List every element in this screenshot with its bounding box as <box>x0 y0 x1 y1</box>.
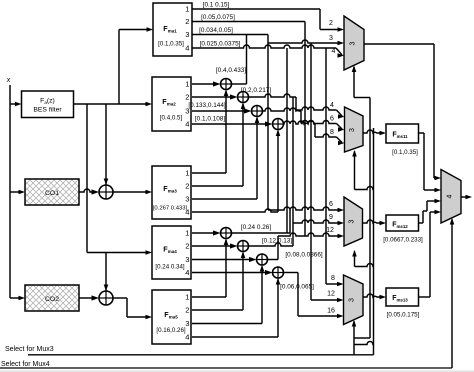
svg-text:4: 4 <box>185 208 189 217</box>
wire x to CO1 <box>10 190 25 195</box>
svg-text:[0.05,0.175]: [0.05,0.175] <box>387 312 420 319</box>
svg-text:3: 3 <box>329 35 333 42</box>
wire Fma1 pin1 <box>192 8 320 10</box>
svg-text:2: 2 <box>185 306 189 315</box>
block CO1 <box>25 179 79 205</box>
label band 0.08-0.0866 <box>285 252 323 259</box>
wire Fma1 pin2 <box>192 21 305 23</box>
wire mux4b in 16 <box>298 314 344 319</box>
wire Fma4 pin4 <box>192 270 273 275</box>
block Fa BES filter <box>22 91 74 118</box>
wire Fa output <box>74 102 153 107</box>
svg-text:8: 8 <box>331 275 335 282</box>
svg-text:[0.05,0.075]: [0.05,0.075] <box>201 14 235 21</box>
wire Fma2 pin4 <box>192 121 273 126</box>
decor bottom band <box>0 370 474 372</box>
wire select4 line <box>0 367 452 369</box>
svg-text:1: 1 <box>185 5 189 14</box>
wire A2 out <box>249 94 297 110</box>
wire sel branch mux1 <box>352 66 370 98</box>
wire Fma2 pin1 <box>192 81 221 86</box>
wire A3 out <box>263 108 302 124</box>
label select mux4 <box>1 361 50 368</box>
adder A3 <box>252 106 263 117</box>
block Fma1 <box>153 3 192 56</box>
svg-text:[0.034,0.05]: [0.034,0.05] <box>199 27 233 34</box>
label band 0.12-0.13 <box>262 238 292 245</box>
label mux1 2 <box>329 20 333 27</box>
label band 0.034-0.05 <box>199 27 233 34</box>
adder B3 <box>257 254 268 265</box>
wire Fma1 pin3 <box>192 34 268 36</box>
wire sel stub1 mux4b <box>354 337 370 339</box>
svg-text:CO1: CO1 <box>45 190 59 197</box>
wire mux4b out <box>363 294 386 299</box>
svg-text:[0.24 0.34]: [0.24 0.34] <box>155 264 185 271</box>
wire mux3 in 9 <box>293 220 344 225</box>
svg-text:8: 8 <box>330 129 334 136</box>
wire Fms13 out riser <box>419 212 431 297</box>
wire mux4b in 12 <box>311 298 344 303</box>
svg-text:12: 12 <box>327 291 335 298</box>
svg-text:[0.1 0.15]: [0.1 0.15] <box>203 2 230 9</box>
svg-text:[0.4,0.5]: [0.4,0.5] <box>160 115 183 122</box>
adder S1 after CO1 <box>99 185 113 199</box>
adder B2 <box>238 241 249 252</box>
mux M5 final <box>441 170 461 224</box>
svg-text:2: 2 <box>185 182 189 191</box>
wire S1 to Fma3 <box>113 190 152 195</box>
label band 0.24-0.26 <box>241 224 271 231</box>
wire mux1 out descent <box>433 44 435 178</box>
wire A2 branch x293 <box>292 97 294 246</box>
wire pin4 branch x326 <box>325 48 327 284</box>
wire mux5 in1 <box>434 176 441 181</box>
svg-text:4: 4 <box>332 48 336 55</box>
svg-text:[0.0667,0.233]: [0.0667,0.233] <box>383 237 423 244</box>
wire mux3 out <box>363 220 387 225</box>
wire tap to Fma1 <box>119 27 153 104</box>
adder A1 <box>221 79 232 90</box>
wire B4 out down <box>284 273 299 317</box>
svg-text:2: 2 <box>329 20 333 27</box>
wire Fma5 pin2 riser <box>192 252 245 311</box>
svg-text:16: 16 <box>327 308 335 315</box>
input x label <box>6 77 11 84</box>
wire sel branch mux3 <box>352 250 373 267</box>
wire Fma3 pin4 riser <box>192 130 280 213</box>
svg-text:[0.16,0.26]: [0.16,0.26] <box>156 327 186 334</box>
wire select4 riser <box>450 218 455 368</box>
mux M4b <box>344 275 364 325</box>
adder S2 after CO2 <box>99 291 113 305</box>
wire mux1 in3 <box>268 40 344 45</box>
svg-text:[0.267 0.433]: [0.267 0.433] <box>153 206 188 212</box>
svg-text:2: 2 <box>185 242 189 251</box>
label band 0.06-0.065 <box>280 284 314 291</box>
label band 0.025-0.0375 <box>200 41 241 48</box>
svg-text:3: 3 <box>350 41 357 45</box>
wire x to Fa <box>10 102 22 107</box>
defs hatch <box>0 0 1 1</box>
wire CO1 to adder <box>79 189 99 195</box>
label mux4b 12 <box>327 291 335 298</box>
adder A2 <box>238 92 249 103</box>
wire S2 to Fma5 <box>113 298 152 319</box>
wire mux5 in4 <box>430 210 441 215</box>
wire mux3 in 12 <box>278 233 344 238</box>
mux M3 <box>344 197 363 246</box>
block CO2 <box>25 285 79 311</box>
svg-text:3: 3 <box>349 128 356 132</box>
wire Fma3 pin3 riser <box>192 117 259 200</box>
svg-text:CO2: CO2 <box>45 296 59 303</box>
label band 0.1-0.15 <box>203 2 230 9</box>
wire mux2 in 6 <box>301 121 345 132</box>
wire mux5 in2 <box>424 188 441 193</box>
wire select3 riser B <box>373 128 375 355</box>
svg-text:3: 3 <box>185 255 189 264</box>
svg-text:4: 4 <box>447 194 454 198</box>
wire Fma5 pin1 riser <box>192 239 228 298</box>
adder B4 <box>273 267 284 278</box>
wire Fma1 pin4 <box>192 45 344 58</box>
label band 0.1-0.108 <box>195 116 225 123</box>
wire Fma4 input <box>87 250 152 255</box>
wire Fma4 pin2 <box>192 243 238 248</box>
svg-text:6: 6 <box>330 116 334 123</box>
svg-text:2: 2 <box>185 93 189 102</box>
wire Fma2 pin3 <box>192 108 252 113</box>
svg-text:1: 1 <box>185 229 189 238</box>
wire x vertical <box>9 85 11 298</box>
svg-text:Select for Mux4: Select for Mux4 <box>1 361 50 368</box>
wire A4 out <box>284 121 316 137</box>
svg-text:1: 1 <box>185 80 189 89</box>
svg-text:4: 4 <box>330 102 334 109</box>
label mux2 4 <box>330 102 334 109</box>
svg-text:3: 3 <box>185 30 189 39</box>
wire x elbow to CO2 <box>10 296 25 301</box>
wire mux3 in 6 <box>268 207 344 212</box>
label mux4b 16 <box>327 308 335 315</box>
wire Fms11 out <box>419 133 425 190</box>
block Fma4 <box>152 226 191 279</box>
svg-text:9: 9 <box>329 214 333 221</box>
svg-text:4: 4 <box>185 268 189 277</box>
svg-text:[0.133,0.144]: [0.133,0.144] <box>188 102 226 109</box>
wire Fma4 pin1 <box>192 230 221 235</box>
mux M1 top <box>344 16 364 70</box>
wire Fma4 pin3 <box>192 257 257 262</box>
label mux1 4 <box>332 48 336 55</box>
wire sel stub2 mux4b <box>354 342 374 345</box>
block Fms13 <box>386 288 420 319</box>
label mux3 12 <box>326 227 334 234</box>
svg-text:[0.06,0.065]: [0.06,0.065] <box>280 284 314 291</box>
label band 0.2-0.217 <box>241 87 271 94</box>
svg-text:3: 3 <box>185 195 189 204</box>
svg-text:12: 12 <box>326 227 334 234</box>
svg-text:1: 1 <box>185 293 189 302</box>
wire mux1 out <box>364 43 434 45</box>
wire B1 out up <box>232 210 291 233</box>
svg-text:4: 4 <box>185 333 189 342</box>
block Fms11 <box>386 124 419 156</box>
wire mux1 in2 <box>320 27 344 32</box>
svg-text:6: 6 <box>329 201 333 208</box>
wire Fma5 pin3 riser <box>192 265 264 324</box>
wire pin2 long descent <box>304 22 306 237</box>
wire row3 branch x268 <box>267 43 269 210</box>
adder B1 <box>221 228 232 239</box>
wire tap down x87 <box>86 104 88 253</box>
wire mux2 out <box>363 130 386 135</box>
svg-text:BES filter: BES filter <box>33 107 62 114</box>
svg-text:[0.025,0.0375]: [0.025,0.0375] <box>200 41 241 48</box>
wire Fma2 pin2 <box>192 94 238 99</box>
wire mux5 output <box>461 195 472 200</box>
wire branch to CO2 adder <box>104 253 109 292</box>
wire pin4row branch x287 <box>286 48 288 233</box>
wire B3 out up <box>268 236 279 260</box>
label band 0.05-0.075 <box>201 14 235 21</box>
svg-text:2: 2 <box>185 17 189 26</box>
wire sel branch mux2 <box>352 150 373 190</box>
wire pin3 jog down <box>267 35 269 44</box>
label band 0.4-0.433 <box>216 67 246 74</box>
wire Fma3 pin1 riser <box>192 90 228 174</box>
svg-text:Fa(z): Fa(z) <box>40 98 55 106</box>
wire mux4b in 8 <box>326 282 344 287</box>
label band 0.133-0.144 <box>188 102 226 109</box>
label mux2 6 <box>330 116 334 123</box>
svg-text:[0.1,0.35]: [0.1,0.35] <box>392 149 418 156</box>
svg-text:1: 1 <box>185 169 189 178</box>
label mux2 8 <box>330 129 334 136</box>
wire mux5 in3 <box>427 199 441 204</box>
block Fma2 <box>152 77 191 131</box>
block Fma5 <box>152 290 191 344</box>
wire select3 riser A <box>369 98 371 339</box>
svg-text:3: 3 <box>185 319 189 328</box>
svg-text:4: 4 <box>185 120 189 129</box>
wire row3 branch x311 <box>310 43 312 300</box>
wire CO2 to adder <box>79 295 99 300</box>
label mux3 6 <box>329 201 333 208</box>
svg-text:[0.4,0.433]: [0.4,0.433] <box>216 67 246 74</box>
svg-text:[0.24 0.26]: [0.24 0.26] <box>241 224 271 231</box>
wire B2 out up <box>249 243 294 246</box>
mux M2 <box>345 107 364 152</box>
svg-text:Select for Mux3: Select for Mux3 <box>5 346 54 353</box>
svg-text:[0.1,0.35]: [0.1,0.35] <box>158 41 184 48</box>
wire Fma3 pin2 riser <box>192 103 245 187</box>
label select mux3 <box>5 346 54 353</box>
adder A4 <box>273 119 284 130</box>
label mux1 3 <box>329 35 333 42</box>
svg-text:x: x <box>6 77 11 84</box>
label mux3 9 <box>329 214 333 221</box>
wire mux2 in 8 <box>315 134 345 145</box>
block Fma3 <box>152 166 191 219</box>
wire mux2 in 4 <box>296 107 345 119</box>
wire select3 line <box>28 354 374 356</box>
block Fms12 <box>383 215 423 244</box>
svg-text:[0.08,0.0866]: [0.08,0.0866] <box>285 252 323 259</box>
wire sel vertical mux4b <box>352 320 357 355</box>
wire A1 out up <box>232 35 247 85</box>
label mux4b 8 <box>331 275 335 282</box>
wire Fms12 out steps <box>419 201 428 223</box>
svg-text:4: 4 <box>185 44 189 53</box>
wire tap down to CO1 adder <box>104 104 109 186</box>
svg-text:3: 3 <box>349 298 356 302</box>
wire Fma5 pin4 riser <box>192 278 280 337</box>
svg-text:[0.1,0.108]: [0.1,0.108] <box>195 116 225 123</box>
svg-text:3: 3 <box>349 219 356 223</box>
wire pin1 descent <box>319 9 321 30</box>
